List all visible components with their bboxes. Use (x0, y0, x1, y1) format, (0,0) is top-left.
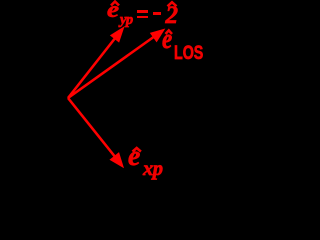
hat accent over e_xp (133, 148, 141, 152)
label yp subscript (120, 13, 133, 28)
label xp subscript (143, 159, 163, 180)
equals sign top bar (137, 10, 148, 13)
hat accent over e_LOS (166, 30, 173, 34)
vector arrow e_yp (steep, up-right) (68, 28, 124, 99)
hat accent over z (168, 2, 177, 6)
vector arrow e_xp (down-right) (68, 98, 123, 167)
label LOS subscript (174, 44, 203, 63)
label z of -z (166, 3, 179, 28)
label e of e_yp (107, 0, 119, 23)
hat accent over e_yp (111, 2, 119, 6)
equals sign bottom bar (137, 16, 148, 19)
label e of e_xp (128, 143, 140, 172)
label e of e_LOS (162, 26, 172, 54)
minus sign bar (153, 12, 161, 15)
vector arrow e_LOS (shallow, up-right) (68, 30, 164, 99)
